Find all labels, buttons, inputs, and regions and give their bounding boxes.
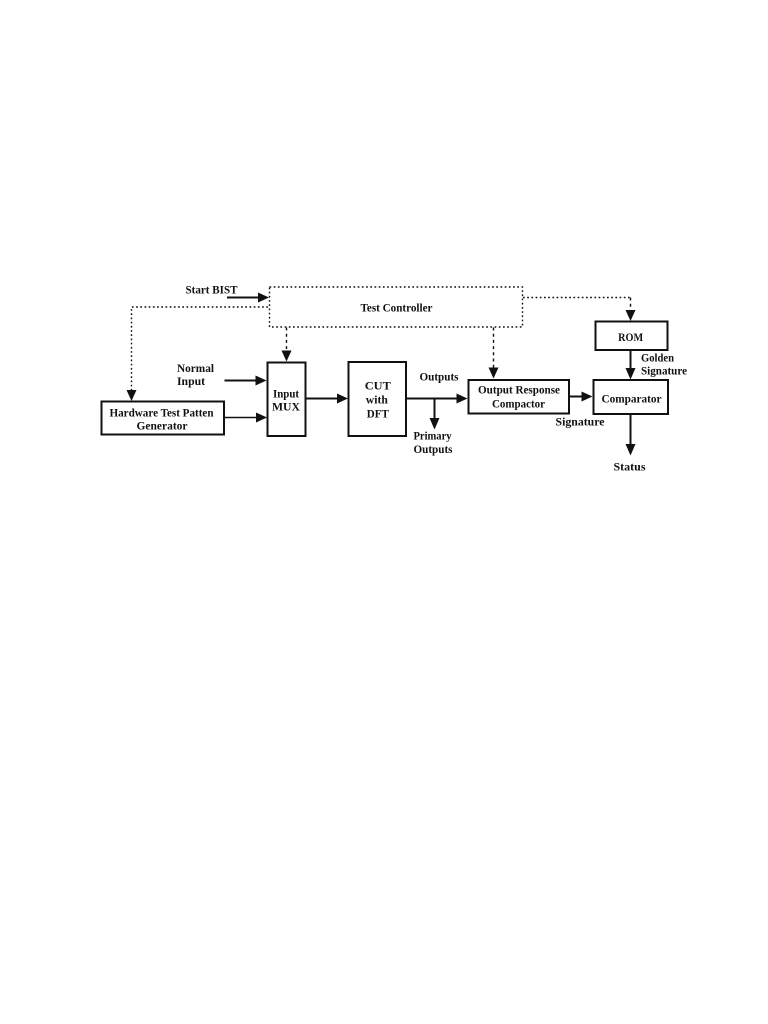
svg-text:ROM: ROM [618,330,643,344]
svg-text:Input: Input [177,374,205,388]
svg-text:Signature: Signature [556,415,606,429]
svg-text:Hardware Test Patten: Hardware Test Patten [110,408,215,420]
svg-text:Start BIST: Start BIST [186,283,238,297]
svg-text:Signature: Signature [641,364,688,378]
svg-text:with: with [366,393,388,407]
svg-text:Primary: Primary [414,429,452,443]
svg-text:Normal: Normal [177,361,215,375]
svg-text:MUX: MUX [272,400,300,414]
svg-text:Output Response: Output Response [478,383,561,397]
svg-text:DFT: DFT [367,407,389,421]
svg-text:Golden: Golden [641,351,674,365]
svg-text:Compactor: Compactor [492,397,546,411]
svg-text:Outputs: Outputs [420,370,459,384]
svg-text:Comparator: Comparator [602,392,663,406]
svg-text:Test Controller: Test Controller [361,301,434,315]
svg-text:CUT: CUT [365,379,391,393]
svg-text:Generator: Generator [137,421,188,433]
svg-text:Input: Input [273,387,299,401]
svg-text:Status: Status [614,460,646,474]
svg-text:Outputs: Outputs [414,442,453,456]
